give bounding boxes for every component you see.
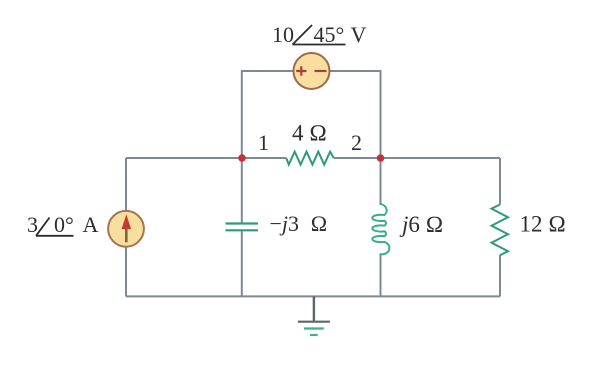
- svg-text:j6 Ω: j6 Ω: [399, 212, 443, 237]
- svg-text:3: 3: [27, 212, 38, 237]
- wire inductor branch upper: [380, 158, 382, 204]
- wire main horizontal left of R 4ohm: [126, 157, 286, 159]
- svg-text:2: 2: [351, 130, 362, 155]
- current source I1: [108, 211, 144, 247]
- svg-text:1: 1: [258, 130, 269, 155]
- wire right branch lower: [499, 256, 501, 297]
- resistor 12ohm zigzag: [492, 205, 509, 256]
- resistor 4ohm zigzag: [286, 152, 334, 165]
- svg-text:A: A: [83, 212, 99, 237]
- svg-text:45°: 45°: [314, 22, 345, 47]
- wire top loop: [242, 71, 381, 158]
- voltage source V1: [294, 53, 330, 89]
- wire capacitor branch lower: [241, 231, 243, 296]
- svg-text:12 Ω: 12 Ω: [520, 212, 566, 237]
- wire left branch: [125, 158, 127, 296]
- node 2 dot: [377, 154, 385, 162]
- svg-text:4 Ω: 4 Ω: [292, 121, 327, 146]
- wire right branch upper: [499, 158, 501, 205]
- inductor j6: [372, 204, 389, 254]
- node 1 dot: [238, 154, 246, 162]
- ground: [298, 296, 330, 335]
- label 3 angle 0 A: [27, 212, 99, 237]
- svg-text:10: 10: [272, 22, 294, 47]
- wire bottom rail: [126, 295, 500, 297]
- svg-text:V: V: [351, 22, 367, 47]
- svg-text:0°: 0°: [54, 212, 74, 237]
- wire main horizontal right of R 4ohm: [334, 157, 500, 159]
- capacitor -j3: [226, 224, 259, 231]
- wire inductor branch lower: [380, 254, 382, 296]
- wire capacitor branch upper: [241, 158, 243, 223]
- label 10 angle 45 V: [272, 22, 367, 47]
- svg-text:−j3 Ω: −j3 Ω: [270, 211, 328, 236]
